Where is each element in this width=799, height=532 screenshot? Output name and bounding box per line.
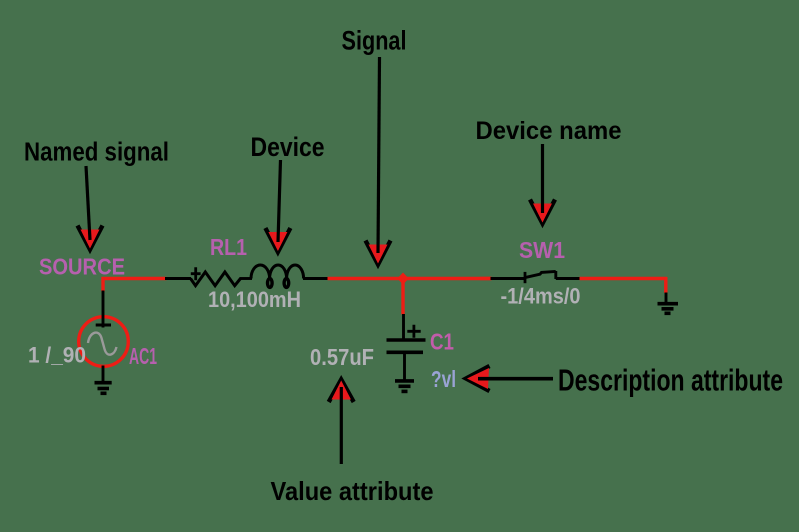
arrow Signal head <box>366 241 391 265</box>
arrow Value attribute shaft <box>340 387 343 464</box>
svg-text:SOURCE: SOURCE <box>39 254 125 280</box>
plus polarity mark of RL1 <box>191 267 201 280</box>
wire red corner vertical at SOURCE node <box>101 277 104 292</box>
svg-text:Named signal: Named signal <box>24 139 169 167</box>
switch SW1 left contact tick <box>524 272 527 283</box>
wire black lead out of coil <box>303 277 328 280</box>
arrow Description attribute shaft <box>478 377 553 381</box>
wire red horizontal from source corner to inductor lead <box>102 277 167 280</box>
arrow Description attribute head <box>466 366 490 391</box>
svg-text:Device name: Device name <box>476 117 622 145</box>
switch SW1 lever <box>525 271 556 277</box>
svg-text:Signal: Signal <box>342 26 407 56</box>
wire red right corner drop <box>664 277 667 293</box>
wire black switch left lead <box>491 277 525 280</box>
wire black switch right lead <box>556 277 581 280</box>
wire black between resistor and coil <box>240 277 253 280</box>
wire black lead into resistor <box>165 277 191 280</box>
ground under source <box>95 383 112 394</box>
wire black right ground lead <box>665 293 668 303</box>
arrow Device name shaft <box>541 144 544 213</box>
svg-text:1 /_90: 1 /_90 <box>28 343 86 368</box>
svg-text:0.57uF: 0.57uF <box>310 344 374 370</box>
wire red junction drop <box>401 279 404 315</box>
ground under capacitor <box>395 381 414 392</box>
capacitor plus mark <box>407 325 420 338</box>
svg-text:-1/4ms/0: -1/4ms/0 <box>501 283 581 308</box>
AC source plus mark <box>96 324 111 327</box>
inductor RL1 coils <box>251 265 304 279</box>
arrow Named signal shaft <box>86 166 90 240</box>
svg-text:Description attribute: Description attribute <box>558 363 783 398</box>
svg-text:Device: Device <box>251 132 325 162</box>
AC source circle AC1 <box>79 317 129 367</box>
arrow Signal shaft <box>378 57 380 253</box>
ground at right <box>658 304 679 314</box>
arrow Named signal head <box>78 226 103 250</box>
arrow Device name head <box>530 200 555 224</box>
wire black source upper lead <box>102 291 105 328</box>
wire black source lower lead <box>102 366 105 383</box>
svg-text:AC1: AC1 <box>129 343 157 369</box>
arrow Device shaft <box>278 160 281 242</box>
svg-text:SW1: SW1 <box>519 237 565 263</box>
svg-text:C1: C1 <box>430 328 454 354</box>
wire red into switch <box>480 277 492 280</box>
svg-text:RL1: RL1 <box>210 234 247 260</box>
junction node dot <box>397 273 408 285</box>
svg-text:?vl: ?vl <box>431 366 456 392</box>
wire black capacitor lower lead <box>403 353 406 380</box>
svg-text:10,100mH: 10,100mH <box>208 287 301 312</box>
wire red main span to switch <box>328 277 492 280</box>
inductor hanging loop 2 <box>284 279 289 288</box>
arrow Device head <box>265 228 290 252</box>
capacitor C1 bottom plate <box>387 350 424 354</box>
arrow Value attribute head <box>329 380 354 403</box>
wire red to right corner <box>580 277 668 280</box>
AC source sine wave <box>88 333 117 355</box>
wire black drop to capacitor <box>402 314 405 339</box>
inductor hanging loop 1 <box>268 279 273 288</box>
capacitor C1 top plate <box>387 338 426 342</box>
svg-text:Value attribute: Value attribute <box>271 476 434 506</box>
resistor RL1 zigzag <box>191 272 241 286</box>
switch SW1 right contact stub <box>554 271 557 279</box>
